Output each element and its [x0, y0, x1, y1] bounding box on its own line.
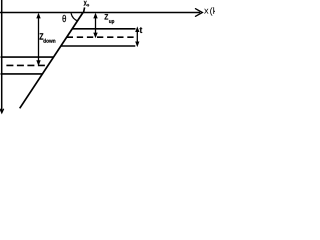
downthrown sheet top line: [1, 56, 54, 58]
label Z_down: [40, 33, 44, 39]
x axis arrowhead: [196, 9, 203, 17]
upthrown sheet bottom line: [61, 45, 135, 47]
upthrown sheet top line: [72, 28, 135, 30]
z axis arrowhead: [0, 109, 4, 113]
z axis line: [1, 0, 3, 112]
theta label: [63, 15, 66, 22]
downthrown sheet mid dashed line: [6, 64, 48, 66]
upthrown sheet mid dashed line: [67, 36, 135, 38]
downthrown sheet bottom line: [1, 73, 43, 75]
t arrow: [135, 26, 139, 47]
label Z_up: [105, 14, 109, 19]
fault line: [20, 13, 83, 109]
z_down arrow: [36, 13, 40, 66]
x axis line: [0, 12, 200, 14]
x axis label x (km): [204, 9, 208, 14]
theta arc: [71, 13, 78, 21]
label Xs: [84, 1, 87, 6]
z_up arrow: [93, 13, 97, 39]
label t: [140, 27, 143, 33]
tick at Xs: [84, 7, 85, 12]
